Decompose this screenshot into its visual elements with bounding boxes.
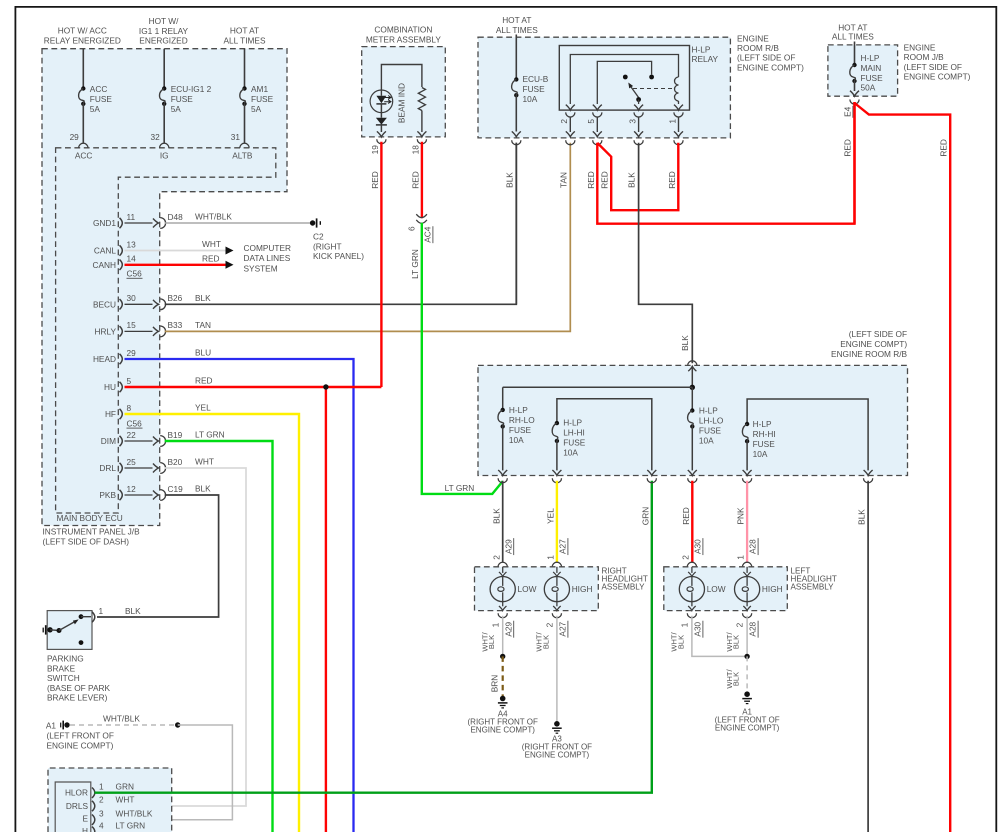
- svg-text:RED: RED: [600, 171, 610, 189]
- svg-text:GRN: GRN: [116, 781, 134, 791]
- svg-text:FUSE: FUSE: [699, 426, 722, 436]
- svg-text:22: 22: [127, 430, 137, 440]
- connector A28 bottom: [743, 613, 752, 618]
- connector: [593, 140, 602, 145]
- svg-text:C2: C2: [313, 232, 324, 242]
- svg-text:A1: A1: [46, 720, 57, 730]
- svg-text:METER ASSEMBLY: METER ASSEMBLY: [366, 34, 441, 44]
- fuse ECU-IG1 2 5A: [163, 49, 165, 89]
- svg-text:HOT AT: HOT AT: [502, 15, 531, 25]
- svg-text:BLK: BLK: [626, 172, 636, 188]
- connector AC4 pin 6: [416, 214, 427, 217]
- fuse ACC 5A: [82, 49, 84, 89]
- svg-text:3: 3: [627, 119, 637, 124]
- pin 4 LT GRN: [92, 827, 95, 832]
- svg-text:IG: IG: [160, 151, 169, 161]
- svg-text:HIGH: HIGH: [762, 584, 783, 594]
- svg-text:B19: B19: [168, 430, 183, 440]
- ground A1 (left front of engine compt): [744, 691, 750, 697]
- svg-text:RH-LO: RH-LO: [509, 415, 535, 425]
- connector E4: [850, 100, 859, 105]
- svg-text:13: 13: [127, 239, 137, 249]
- svg-text:(LEFT SIDE OF: (LEFT SIDE OF: [737, 53, 795, 63]
- svg-text:12: 12: [127, 484, 137, 494]
- connector A27 bottom: [552, 613, 561, 618]
- svg-text:A29: A29: [503, 621, 513, 636]
- connector B33: [125, 330, 153, 332]
- svg-text:A30: A30: [692, 539, 702, 554]
- svg-text:ENGINE COMPT): ENGINE COMPT): [904, 71, 971, 81]
- junction: [744, 654, 749, 659]
- svg-text:SYSTEM: SYSTEM: [244, 263, 278, 273]
- wire meter internal rail: [381, 65, 422, 91]
- svg-text:ROOM J/B: ROOM J/B: [904, 52, 945, 62]
- connector arc: [240, 143, 249, 148]
- fuse ECU-B 10A: [515, 35, 517, 80]
- svg-text:DATA LINES: DATA LINES: [244, 253, 291, 263]
- pin 19: [377, 139, 386, 144]
- svg-text:1: 1: [99, 781, 104, 791]
- svg-text:H-LP: H-LP: [563, 418, 582, 428]
- svg-text:FUSE: FUSE: [753, 439, 776, 449]
- svg-text:HLOR: HLOR: [65, 788, 88, 798]
- connector: [566, 140, 575, 145]
- svg-text:C56: C56: [127, 418, 143, 428]
- svg-text:GRN: GRN: [640, 507, 650, 525]
- connector: [634, 140, 643, 145]
- svg-text:CANL: CANL: [94, 246, 117, 256]
- svg-text:AM1: AM1: [251, 84, 268, 94]
- connector A30 bottom: [687, 613, 696, 618]
- svg-text:H-LP: H-LP: [692, 45, 711, 55]
- svg-text:H: H: [82, 826, 88, 832]
- fuse H-LP MAIN 50A: [854, 42, 856, 66]
- svg-text:RED: RED: [938, 139, 948, 157]
- connector: [688, 478, 697, 483]
- svg-text:BEAM IND: BEAM IND: [396, 83, 406, 123]
- connector arc: [79, 143, 88, 148]
- svg-text:BRN: BRN: [489, 675, 499, 693]
- svg-text:WHT: WHT: [202, 239, 221, 249]
- svg-text:E: E: [82, 814, 88, 824]
- relay coil: [675, 77, 679, 101]
- svg-text:ECU-IG1 2: ECU-IG1 2: [171, 84, 212, 94]
- svg-text:LOW: LOW: [707, 584, 726, 594]
- fuse H-LP LH-HI 10A: [557, 399, 652, 471]
- svg-text:COMBINATION: COMBINATION: [374, 25, 432, 35]
- svg-text:BLK: BLK: [125, 606, 141, 616]
- svg-text:H-LP: H-LP: [753, 419, 772, 429]
- svg-text:LH-HI: LH-HI: [563, 428, 585, 438]
- svg-text:10A: 10A: [753, 449, 768, 459]
- svg-text:1: 1: [99, 606, 104, 616]
- junction: [500, 654, 505, 659]
- connector BLK feed into box: [688, 361, 697, 366]
- svg-text:(RIGHT: (RIGHT: [313, 241, 342, 251]
- svg-text:BRAKE LEVER): BRAKE LEVER): [47, 693, 108, 703]
- resistor: [418, 88, 425, 111]
- fuse AM1 5A: [244, 49, 246, 89]
- bulb HIGH (right): [556, 567, 558, 573]
- svg-text:11: 11: [127, 212, 136, 222]
- svg-text:(LEFT SIDE OF: (LEFT SIDE OF: [849, 329, 907, 339]
- junction: [690, 385, 695, 390]
- svg-text:DIM: DIM: [101, 436, 116, 446]
- svg-text:HF: HF: [105, 409, 116, 419]
- svg-text:ALL TIMES: ALL TIMES: [224, 36, 266, 46]
- svg-text:ENGINE COMPT): ENGINE COMPT): [47, 741, 114, 751]
- svg-text:MAIN BODY ECU: MAIN BODY ECU: [57, 513, 123, 523]
- connector: [674, 140, 683, 145]
- svg-text:KICK PANEL): KICK PANEL): [313, 251, 364, 261]
- svg-text:WHT/BLK: WHT/BLK: [103, 713, 140, 723]
- svg-text:B20: B20: [168, 457, 183, 467]
- svg-text:D48: D48: [168, 212, 184, 222]
- connector arc: [160, 143, 169, 148]
- svg-text:19: 19: [370, 145, 380, 155]
- svg-text:RH-HI: RH-HI: [753, 429, 776, 439]
- svg-text:8: 8: [127, 403, 132, 413]
- svg-text:RELAY ENERGIZED: RELAY ENERGIZED: [44, 36, 121, 46]
- svg-text:ENGINE: ENGINE: [904, 43, 936, 53]
- svg-text:HRLY: HRLY: [94, 326, 116, 336]
- svg-text:BLK: BLK: [541, 635, 550, 649]
- svg-text:HIGH: HIGH: [572, 584, 593, 594]
- svg-text:4: 4: [99, 820, 104, 830]
- svg-text:RED: RED: [842, 139, 852, 157]
- svg-text:BLK: BLK: [505, 172, 515, 188]
- svg-text:ENGINE COMPT): ENGINE COMPT): [737, 62, 804, 72]
- svg-text:(LEFT FRONT OF: (LEFT FRONT OF: [47, 731, 114, 741]
- svg-text:10A: 10A: [563, 448, 578, 458]
- relay pin 3: [634, 105, 643, 111]
- svg-text:RED: RED: [202, 253, 220, 263]
- svg-text:FUSE: FUSE: [171, 94, 194, 104]
- box MAIN BODY ECU, dashed: [56, 148, 276, 513]
- pin 1 GRN: [92, 788, 95, 798]
- svg-text:ASSEMBLY: ASSEMBLY: [791, 583, 835, 592]
- svg-text:A27: A27: [557, 539, 567, 554]
- svg-text:6: 6: [406, 226, 416, 231]
- svg-text:RED: RED: [410, 171, 420, 189]
- connector: [864, 478, 873, 483]
- svg-text:BLK: BLK: [487, 635, 496, 649]
- svg-text:COMPUTER: COMPUTER: [244, 243, 291, 253]
- connector A29 bottom: [498, 613, 507, 618]
- svg-text:BLU: BLU: [195, 348, 211, 358]
- svg-text:29: 29: [127, 348, 137, 358]
- bulb LOW (right): [502, 567, 504, 573]
- connector: [552, 478, 561, 483]
- relay pin 2: [566, 105, 575, 111]
- svg-text:WHT/BLK: WHT/BLK: [195, 212, 232, 222]
- svg-text:RED: RED: [195, 376, 213, 386]
- svg-text:RED: RED: [586, 171, 596, 189]
- svg-text:ASSEMBLY: ASSEMBLY: [602, 583, 646, 592]
- LED beam indicator: [370, 90, 393, 113]
- svg-text:A28: A28: [748, 539, 758, 554]
- pin 18: [417, 139, 426, 144]
- connector B20: [125, 467, 153, 469]
- svg-text:5: 5: [127, 376, 132, 386]
- svg-text:LT GRN: LT GRN: [410, 249, 420, 279]
- svg-text:(LEFT SIDE OF: (LEFT SIDE OF: [904, 62, 962, 72]
- svg-text:TAN: TAN: [195, 320, 211, 330]
- connector B26: [125, 303, 153, 305]
- relay contacts: [623, 75, 628, 80]
- wire rail to RH-LO / LH-LO fuses: [503, 386, 693, 388]
- svg-text:PARKING: PARKING: [47, 654, 84, 664]
- svg-text:FUSE: FUSE: [861, 73, 884, 83]
- svg-text:ENGINE COMPT): ENGINE COMPT): [525, 751, 590, 760]
- connector: [498, 478, 507, 483]
- relay pin 1: [674, 105, 683, 111]
- svg-text:ENERGIZED: ENERGIZED: [139, 36, 187, 46]
- svg-text:1: 1: [679, 622, 689, 627]
- svg-text:HU: HU: [104, 382, 116, 392]
- svg-text:B26: B26: [168, 293, 183, 303]
- svg-text:H-LP: H-LP: [699, 406, 718, 416]
- svg-text:A27: A27: [557, 621, 567, 636]
- svg-text:IG1 1 RELAY: IG1 1 RELAY: [139, 26, 189, 36]
- svg-text:ENGINE COMPT): ENGINE COMPT): [840, 339, 907, 349]
- svg-text:ENGINE COMPT): ENGINE COMPT): [470, 726, 535, 735]
- ground A4 (right front of engine compt): [500, 696, 506, 702]
- svg-text:BECU: BECU: [93, 299, 116, 309]
- relay U1 H-LP RELAY: [559, 46, 689, 111]
- svg-text:YEL: YEL: [195, 403, 211, 413]
- svg-text:C56: C56: [127, 269, 143, 279]
- svg-text:1: 1: [736, 555, 746, 560]
- bulb HIGH (left): [746, 567, 748, 573]
- svg-text:RED: RED: [370, 171, 380, 189]
- svg-text:18: 18: [410, 145, 420, 155]
- relay pin 5: [593, 105, 602, 111]
- svg-text:SWITCH: SWITCH: [47, 673, 80, 683]
- svg-text:30: 30: [127, 293, 137, 303]
- fuse H-LP RH-HI 10A: [747, 399, 868, 470]
- svg-text:LOW: LOW: [518, 584, 537, 594]
- svg-text:14: 14: [127, 254, 137, 264]
- svg-text:WHT: WHT: [116, 795, 135, 805]
- parking brake switch: [47, 611, 92, 650]
- svg-text:DRL: DRL: [99, 463, 116, 473]
- svg-text:5A: 5A: [251, 104, 262, 114]
- svg-text:ALL TIMES: ALL TIMES: [832, 32, 874, 42]
- svg-text:2: 2: [680, 555, 690, 560]
- svg-text:FUSE: FUSE: [251, 94, 274, 104]
- svg-text:1: 1: [490, 622, 500, 627]
- svg-text:RED: RED: [681, 507, 691, 525]
- box DRL unit, dashed: [48, 768, 172, 832]
- svg-text:PKB: PKB: [99, 490, 116, 500]
- svg-text:BLK: BLK: [680, 335, 690, 351]
- svg-text:BLK: BLK: [731, 672, 740, 686]
- svg-text:RELAY: RELAY: [692, 54, 719, 64]
- connector B19: [125, 440, 153, 442]
- svg-text:MAIN: MAIN: [861, 63, 882, 73]
- svg-text:AC4: AC4: [422, 226, 432, 243]
- svg-text:5A: 5A: [171, 104, 182, 114]
- connector C2 (right kick panel): [310, 220, 315, 225]
- svg-text:HOT W/ ACC: HOT W/ ACC: [58, 26, 107, 36]
- svg-text:15: 15: [127, 320, 137, 330]
- svg-text:A29: A29: [503, 539, 513, 554]
- svg-text:WHT/BLK: WHT/BLK: [116, 808, 153, 818]
- svg-text:1: 1: [667, 119, 677, 124]
- junction: [175, 722, 180, 727]
- svg-text:(BASE OF PARK: (BASE OF PARK: [47, 683, 110, 693]
- bulb LOW (left): [691, 567, 693, 573]
- svg-text:10A: 10A: [523, 94, 538, 104]
- svg-text:BLK: BLK: [195, 293, 211, 303]
- wire GRN HLOR to H-LP LH-HI fuse: [95, 481, 652, 793]
- svg-text:FUSE: FUSE: [563, 438, 586, 448]
- svg-text:FUSE: FUSE: [90, 94, 113, 104]
- svg-text:HOT W/: HOT W/: [149, 16, 179, 26]
- DRL module inner box: [55, 782, 91, 832]
- connector D48: [125, 222, 153, 224]
- svg-text:LT GRN: LT GRN: [116, 820, 146, 830]
- diode: [380, 104, 382, 118]
- fuse H-LP LH-LO 10A: [691, 387, 693, 410]
- svg-text:2: 2: [559, 119, 569, 124]
- svg-text:CANH: CANH: [92, 260, 116, 270]
- svg-text:A30: A30: [692, 621, 702, 636]
- svg-text:BLK: BLK: [731, 635, 740, 649]
- connector: [743, 478, 752, 483]
- svg-text:ROOM R/B: ROOM R/B: [737, 43, 779, 53]
- svg-text:YEL: YEL: [545, 508, 555, 524]
- svg-text:31: 31: [231, 132, 241, 142]
- svg-text:BLK: BLK: [491, 508, 501, 524]
- mechanical link: [633, 88, 672, 90]
- svg-text:HOT AT: HOT AT: [230, 26, 259, 36]
- svg-text:ENGINE: ENGINE: [737, 34, 769, 44]
- svg-text:ALL TIMES: ALL TIMES: [496, 25, 538, 35]
- box ENGINE ROOM R/B with H-LP relay: [478, 37, 730, 138]
- svg-text:2: 2: [99, 795, 104, 805]
- svg-text:29: 29: [70, 132, 80, 142]
- svg-text:FUSE: FUSE: [523, 84, 546, 94]
- svg-text:GND1: GND1: [93, 218, 116, 228]
- svg-text:H-LP: H-LP: [509, 405, 528, 415]
- svg-text:LT GRN: LT GRN: [445, 483, 475, 493]
- svg-text:25: 25: [127, 457, 137, 467]
- svg-text:3: 3: [99, 808, 104, 818]
- svg-text:LT GRN: LT GRN: [195, 430, 225, 440]
- svg-text:WHT: WHT: [195, 457, 214, 467]
- svg-text:ALTB: ALTB: [232, 151, 253, 161]
- svg-text:ENGINE ROOM R/B: ENGINE ROOM R/B: [831, 349, 908, 359]
- fuse H-LP RH-LO 10A: [502, 387, 504, 410]
- svg-text:ECU-B: ECU-B: [523, 74, 549, 84]
- svg-text:FUSE: FUSE: [509, 425, 532, 435]
- svg-text:A28: A28: [748, 621, 758, 636]
- svg-text:H-LP: H-LP: [861, 53, 880, 63]
- box INSTRUMENT PANEL J/B (left side of dash), dashed, blue fill: [42, 49, 287, 526]
- svg-text:ENGINE COMPT): ENGINE COMPT): [715, 724, 780, 733]
- svg-text:BLK: BLK: [676, 635, 685, 649]
- svg-text:INSTRUMENT PANEL J/B: INSTRUMENT PANEL J/B: [43, 527, 141, 537]
- svg-text:HEAD: HEAD: [93, 354, 116, 364]
- pin 1: [92, 612, 95, 622]
- svg-text:ACC: ACC: [75, 151, 93, 161]
- svg-text:ACC: ACC: [90, 84, 108, 94]
- ground A3 (right front of engine compt): [554, 721, 560, 727]
- svg-text:PNK: PNK: [736, 507, 746, 525]
- svg-text:C19: C19: [168, 484, 184, 494]
- svg-text:RED: RED: [667, 171, 677, 189]
- svg-text:10A: 10A: [509, 435, 524, 445]
- box ENGINE ROOM J/B: [828, 45, 898, 96]
- svg-text:(LEFT SIDE OF DASH): (LEFT SIDE OF DASH): [43, 537, 130, 547]
- junction: [323, 384, 328, 389]
- connector: [512, 140, 521, 145]
- svg-text:10A: 10A: [699, 436, 714, 446]
- connector C19: [125, 494, 153, 496]
- svg-text:LH-LO: LH-LO: [699, 416, 724, 426]
- svg-text:E4: E4: [842, 106, 852, 117]
- pin 3 WHT/BLK: [92, 815, 95, 825]
- svg-text:B33: B33: [168, 320, 183, 330]
- svg-text:32: 32: [150, 132, 160, 142]
- svg-text:5: 5: [586, 119, 596, 124]
- box ENGINE ROOM R/B (4 headlight fuses): [478, 365, 908, 475]
- svg-text:1: 1: [545, 555, 555, 560]
- svg-text:2: 2: [735, 622, 745, 627]
- svg-text:BLK: BLK: [195, 484, 211, 494]
- svg-text:DRLS: DRLS: [66, 801, 89, 811]
- svg-text:50A: 50A: [861, 83, 876, 93]
- svg-text:BLK: BLK: [857, 509, 867, 525]
- svg-text:5A: 5A: [90, 104, 101, 114]
- connector: [647, 478, 656, 483]
- svg-text:BRAKE: BRAKE: [47, 663, 76, 673]
- svg-text:2: 2: [491, 555, 501, 560]
- svg-text:2: 2: [544, 622, 554, 627]
- pin 2 WHT: [92, 801, 95, 811]
- svg-text:TAN: TAN: [559, 172, 569, 188]
